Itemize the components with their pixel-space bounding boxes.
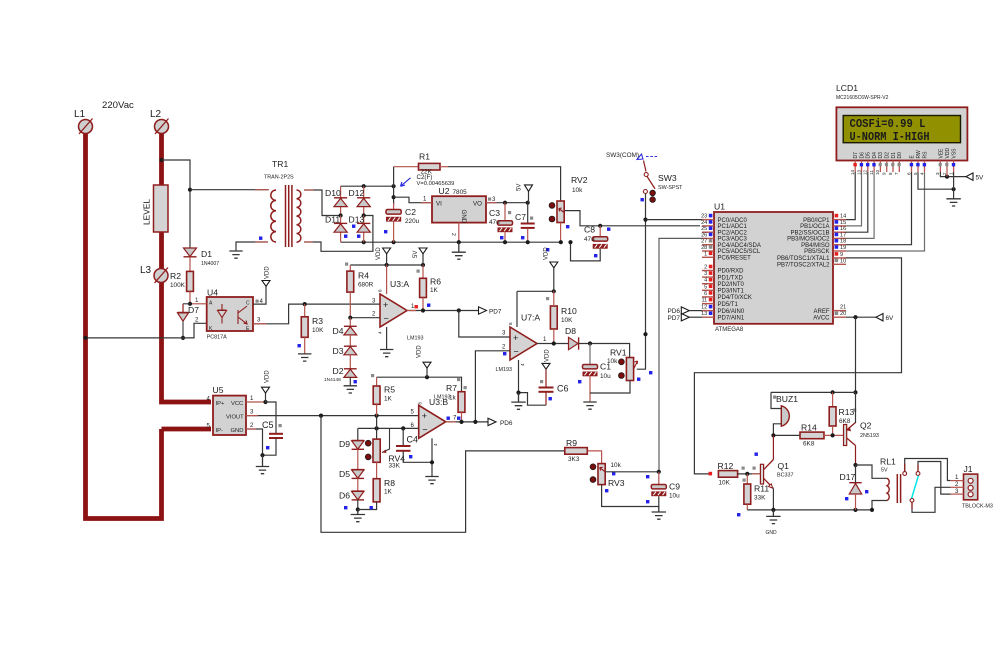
svg-text:PD6: PD6: [500, 420, 513, 427]
svg-text:17: 17: [840, 232, 846, 238]
wire U3:B pin6 node: [358, 427, 419, 429]
svg-text:PC5/ADC5/SCL: PC5/ADC5/SCL: [718, 249, 761, 255]
wire LCD D5 to U1 pin16: [846, 172, 868, 232]
buzzer BUZ1: [771, 392, 798, 435]
wire rail BUZ1/R13/Q2: [771, 391, 856, 393]
svg-text:10k: 10k: [611, 462, 622, 469]
svg-text:BC337: BC337: [777, 473, 793, 479]
capacitor C1 10u: [578, 344, 611, 402]
wire: primary bottom to ground: [236, 242, 268, 251]
svg-text:D11: D11: [325, 215, 340, 225]
IC U5 current sensor: [207, 385, 247, 435]
wire LCD VSS to ground: [953, 172, 955, 199]
op-amp U3:A LM193: [378, 265, 424, 350]
transistor Q1 BC337: [760, 435, 793, 510]
svg-text:18: 18: [840, 239, 846, 245]
wire SW3 node to U1 pin23: [646, 219, 703, 221]
diode D17: [840, 465, 869, 510]
svg-text:D1: D1: [891, 152, 897, 159]
node: rectifier + vertical: [393, 167, 395, 205]
svg-text:1N4007: 1N4007: [201, 261, 219, 267]
svg-text:MC21605C6W-SPR-V2: MC21605C6W-SPR-V2: [836, 95, 889, 101]
svg-text:LEVEL: LEVEL: [142, 199, 152, 225]
power 5V (LCD): [966, 173, 984, 182]
wire: bridge bottom rail (ground rail): [341, 241, 561, 243]
svg-text:+: +: [513, 333, 518, 343]
resistor R8 1K: [358, 462, 395, 509]
ground (U2): [452, 242, 466, 259]
svg-text:13: 13: [856, 169, 861, 175]
ground (U7): [511, 393, 525, 410]
wire LCD D4 to U1 pin17: [846, 172, 874, 238]
wire U5 VCC to VDD: [246, 401, 266, 403]
wire: L2 junction to TR1 primary top and D1: [162, 160, 191, 248]
svg-text:U5: U5: [213, 385, 224, 395]
svg-text:J1: J1: [964, 464, 973, 474]
capacitor C5: [262, 402, 283, 455]
svg-text:SW3(COM): SW3(COM): [606, 152, 639, 159]
wire U1 pin9 to R12 loop: [694, 258, 901, 474]
svg-text:PC1/ADC1: PC1/ADC1: [718, 224, 748, 230]
wire C6 bottom to U7 ground: [519, 393, 547, 406]
svg-text:680R: 680R: [358, 282, 374, 289]
wire: L1 to U4 pin K: [86, 323, 207, 338]
svg-text:8: 8: [378, 289, 383, 292]
capacitor C7: [515, 203, 535, 245]
LCD1 MC21605C6W-SPR-V2: [836, 83, 967, 161]
svg-text:+: +: [383, 300, 388, 310]
svg-text:PD2/INT0: PD2/INT0: [718, 282, 745, 288]
svg-text:SW3: SW3: [658, 173, 677, 183]
svg-text:PB0/ICP1: PB0/ICP1: [803, 218, 830, 224]
resistor R4 680R: [347, 265, 374, 318]
terminal L1: [74, 109, 93, 134]
capacitor C4: [396, 428, 434, 464]
wire U3:A output to PD7: [407, 310, 479, 312]
diode D13: [349, 215, 371, 243]
pot RV3 10k: [590, 462, 625, 492]
power 6V (AVCC): [876, 314, 894, 323]
svg-text:6: 6: [906, 172, 911, 175]
wire LCD RW to VSS: [918, 172, 954, 189]
svg-text:RV3: RV3: [608, 478, 625, 488]
node AC2: [362, 213, 366, 217]
wire D1 to R2: [189, 257, 191, 272]
svg-text:D6: D6: [859, 152, 865, 159]
capacitor C6: [539, 369, 569, 405]
svg-text:R10: R10: [561, 306, 577, 316]
svg-text:VDD: VDD: [265, 266, 271, 279]
svg-text:VDD: VDD: [945, 148, 951, 159]
svg-text:25: 25: [701, 226, 707, 232]
resistor R1 22K: [394, 152, 448, 176]
svg-text:LM193: LM193: [407, 336, 423, 342]
wire: IP- thick lead: [162, 427, 212, 432]
svg-text:D12: D12: [349, 188, 365, 198]
svg-text:D4: D4: [333, 326, 344, 336]
svg-text:5V: 5V: [517, 184, 523, 191]
ground (LCD): [946, 199, 960, 206]
svg-text:VIOUT: VIOUT: [226, 414, 244, 420]
svg-text:8: 8: [888, 172, 893, 175]
capacitor C2 220u: [384, 203, 420, 242]
svg-text:IP-: IP-: [216, 428, 223, 434]
diode D4: [333, 318, 357, 336]
svg-text:220Vac: 220Vac: [102, 100, 134, 111]
svg-text:10u: 10u: [669, 493, 680, 500]
svg-text:D6: D6: [339, 491, 350, 501]
wire D7 anode down to L1 net: [182, 321, 184, 338]
svg-text:23: 23: [701, 214, 707, 220]
svg-text:R9: R9: [566, 438, 577, 448]
wire R5 bottom to RV4: [376, 416, 378, 440]
svg-text:R14: R14: [801, 423, 817, 433]
optocoupler U4 PC817A: [207, 288, 253, 341]
svg-text:RV1: RV1: [610, 348, 627, 358]
svg-text:PD1/TXD: PD1/TXD: [718, 275, 744, 281]
svg-text:C3: C3: [489, 208, 500, 218]
svg-text:12: 12: [701, 305, 707, 311]
svg-text:LCD1: LCD1: [836, 83, 858, 93]
svg-text:U-NORM I-HIGH: U-NORM I-HIGH: [850, 130, 930, 144]
diode D3: [333, 335, 357, 356]
svg-text:33K: 33K: [754, 495, 766, 502]
svg-text:U7:A: U7:A: [521, 313, 540, 323]
ground (D2): [344, 386, 357, 393]
LCD pins: [853, 148, 958, 159]
svg-text:1K: 1K: [430, 287, 439, 294]
svg-text:7: 7: [894, 172, 899, 175]
svg-text:4: 4: [433, 443, 438, 446]
wire U1 pin26 to RV3/C9 node: [659, 238, 702, 471]
svg-text:BUZ1: BUZ1: [776, 394, 798, 404]
power 5V arrow (U2 out): [517, 184, 533, 203]
svg-text:R4: R4: [358, 271, 369, 281]
diode D9: [339, 428, 364, 449]
svg-text:14: 14: [850, 169, 855, 175]
IC U1 ATMEGA8: [714, 202, 833, 334]
svg-text:5V: 5V: [413, 251, 419, 258]
wire R14 right to Q2 base: [824, 434, 844, 436]
svg-text:L1: L1: [74, 109, 86, 120]
ground (D6/R8): [351, 510, 365, 522]
svg-text:10k: 10k: [607, 358, 618, 365]
svg-text:D7: D7: [188, 305, 199, 315]
svg-text:1: 1: [948, 172, 953, 175]
svg-text:3: 3: [704, 271, 707, 277]
svg-text:R2: R2: [170, 271, 181, 281]
svg-text:COSFi=0.99 L: COSFi=0.99 L: [850, 117, 926, 131]
svg-text:R8: R8: [384, 478, 395, 488]
power VDD (R10): [544, 247, 558, 292]
svg-text:IP+: IP+: [216, 401, 225, 407]
wire LCD D6 to U1 pin15: [846, 172, 862, 226]
svg-text:D8: D8: [565, 326, 576, 336]
svg-text:PD6/AIN0: PD6/AIN0: [718, 309, 745, 315]
svg-text:R6: R6: [430, 277, 441, 287]
svg-text:6V: 6V: [886, 315, 895, 322]
svg-text:PC4/ADC4/SDA: PC4/ADC4/SDA: [718, 243, 761, 249]
svg-text:16: 16: [840, 226, 846, 232]
wire R2 to node: [189, 291, 191, 303]
svg-text:C5: C5: [262, 420, 274, 430]
probe C2(F): [401, 174, 455, 187]
node AC1: [339, 213, 343, 217]
svg-text:VDD: VDD: [264, 370, 270, 383]
wire: bridge top rail: [341, 185, 394, 187]
connector J1 TBLOCK-M3: [950, 464, 992, 510]
svg-text:8: 8: [508, 322, 513, 325]
wire R12 to Q1 base: [738, 473, 761, 475]
svg-text:TBLOCK-M3: TBLOCK-M3: [962, 504, 993, 510]
transistor Q2 2N5193: [844, 392, 879, 465]
svg-text:2N5193: 2N5193: [860, 433, 879, 439]
svg-text:PC0/ADC0: PC0/ADC0: [718, 218, 748, 224]
svg-text:VDD: VDD: [544, 247, 550, 260]
svg-text:D2: D2: [333, 366, 344, 376]
resistor R6 1K: [420, 265, 442, 311]
svg-text:5V: 5V: [976, 175, 985, 182]
resistor R2 100K: [170, 271, 193, 291]
svg-text:9: 9: [882, 172, 887, 175]
wire: secondary bottom to bridge AC2: [304, 216, 373, 252]
svg-text:TRAN-2P2S: TRAN-2P2S: [264, 175, 294, 181]
wire: primary top: [190, 189, 268, 191]
svg-text:PC2/ADC2: PC2/ADC2: [718, 230, 748, 236]
svg-text:PB2/SS/OC1B: PB2/SS/OC1B: [790, 230, 829, 236]
svg-text:3: 3: [935, 172, 940, 175]
svg-text:C2: C2: [405, 207, 416, 217]
svg-text:R5: R5: [384, 385, 395, 395]
fuse LEVEL: [142, 185, 169, 232]
U4 pin E wire to R3 node: [253, 304, 380, 324]
svg-text:GND: GND: [766, 530, 778, 536]
wire U7 pin8 to VDD node: [517, 290, 554, 292]
svg-text:26: 26: [701, 232, 707, 238]
wire RV3 bottom to C9 ground: [602, 485, 659, 507]
capacitor C3 47u: [489, 203, 513, 245]
wire D8 to C1/RV1: [579, 344, 630, 358]
svg-text:D17: D17: [840, 472, 856, 482]
svg-text:6: 6: [704, 291, 707, 297]
svg-text:PC6/RESET: PC6/RESET: [718, 256, 752, 262]
svg-text:100K: 100K: [170, 282, 186, 289]
svg-text:VDD: VDD: [545, 349, 551, 362]
svg-text:R3: R3: [312, 316, 323, 326]
pot RV2 10k: [546, 175, 588, 251]
svg-text:ATMEGA8: ATMEGA8: [715, 327, 744, 333]
wire: secondary top to bridge AC1: [304, 190, 341, 216]
svg-text:+: +: [422, 411, 427, 421]
ground (C9): [652, 507, 666, 520]
U1 right pins: [803, 214, 846, 224]
power VDD (C6): [542, 349, 551, 370]
svg-text:C4: C4: [407, 435, 419, 445]
svg-text:D5: D5: [339, 469, 350, 479]
wire LCD D7 to U1 pin14: [846, 172, 855, 220]
pot RV4 33K: [365, 428, 405, 469]
diode D12: [349, 186, 371, 215]
svg-text:5: 5: [913, 172, 918, 175]
ground (U3:B): [425, 477, 438, 484]
svg-text:L2: L2: [150, 109, 162, 120]
svg-text:PB6/TOSC1/XTAL1: PB6/TOSC1/XTAL1: [777, 256, 830, 262]
svg-text:−: −: [422, 425, 427, 435]
transformer TR1 TRAN-2P2S: [264, 159, 301, 247]
svg-text:10K: 10K: [312, 327, 324, 334]
svg-text:D0: D0: [897, 152, 903, 159]
svg-text:4: 4: [378, 331, 383, 334]
svg-text:2: 2: [450, 233, 456, 236]
svg-text:19: 19: [840, 245, 846, 251]
diode D5: [339, 449, 364, 479]
svg-text:GND: GND: [231, 428, 244, 434]
svg-text:C7: C7: [515, 212, 526, 222]
diode D7: [178, 304, 200, 321]
svg-text:PB4/MISO: PB4/MISO: [801, 243, 830, 249]
svg-text:10: 10: [840, 258, 846, 264]
relay RL1 5V: [856, 457, 901, 513]
resistor R14 6K8: [800, 423, 824, 448]
op-amp U7:A LM193: [496, 291, 541, 392]
wire U5 GND: [246, 429, 263, 455]
power VDD (U3:A): [376, 247, 391, 265]
wire C8 bottom loop to ground rail: [571, 242, 601, 261]
terminal PD7 (out): [479, 307, 502, 316]
svg-text:47u: 47u: [584, 236, 595, 243]
svg-text:VSS: VSS: [952, 148, 958, 159]
wire SW3 down to RV1 wiper: [637, 194, 646, 370]
svg-text:RV2: RV2: [571, 175, 588, 185]
relay contacts: [903, 459, 951, 513]
svg-text:28: 28: [701, 245, 707, 251]
svg-text:220u: 220u: [405, 218, 420, 225]
terminal PD7 (into U1): [668, 314, 703, 322]
diode D2 1N4148: [324, 355, 357, 383]
switch SW3 SW-SPST: [606, 152, 683, 202]
svg-text:AREF: AREF: [813, 309, 829, 315]
wire U2 pin2 gnd: [458, 223, 460, 243]
svg-text:U3:B: U3:B: [429, 397, 448, 407]
diode D11: [325, 215, 347, 243]
svg-text:−: −: [514, 347, 519, 357]
svg-text:C8: C8: [584, 225, 595, 235]
svg-text:PD5/T1: PD5/T1: [718, 302, 739, 308]
wire: L1 thick bus: [86, 132, 162, 519]
ground (U5/C5): [256, 455, 269, 474]
svg-text:U3:A: U3:A: [390, 279, 409, 289]
svg-text:VO: VO: [473, 201, 482, 208]
resistor R13 6K8: [829, 392, 856, 435]
svg-text:14: 14: [840, 214, 846, 220]
capacitor C8 47u: [584, 225, 610, 258]
svg-text:10K: 10K: [719, 480, 731, 487]
svg-text:PC3/ADC3: PC3/ADC3: [718, 237, 748, 243]
wire node to U3:A pin2: [350, 317, 380, 319]
power rail above U3:A: [350, 264, 423, 266]
resistor R3 10K: [298, 304, 325, 354]
resistor R5 1K: [373, 377, 395, 415]
svg-text:1K: 1K: [384, 489, 393, 496]
svg-text:10: 10: [875, 169, 880, 175]
svg-text:RS: RS: [923, 151, 929, 159]
U1 left pins: [701, 214, 747, 224]
wire LCD E to U1 pin18: [846, 172, 912, 245]
svg-text:10K: 10K: [561, 317, 573, 324]
svg-text:6K8: 6K8: [803, 441, 815, 448]
svg-text:Q2: Q2: [860, 421, 872, 431]
svg-text:PD0/RXD: PD0/RXD: [718, 269, 745, 275]
wire: L2 thick bus: [162, 132, 212, 402]
svg-text:11: 11: [701, 298, 707, 304]
svg-text:VDD: VDD: [417, 345, 423, 358]
svg-text:D10: D10: [325, 188, 341, 198]
terminal PD6 (out): [488, 418, 513, 427]
svg-text:4: 4: [919, 172, 924, 175]
svg-text:TR1: TR1: [272, 159, 288, 169]
diode D1 1N4007: [184, 248, 220, 267]
svg-text:3K3: 3K3: [568, 456, 580, 463]
svg-text:20: 20: [840, 311, 846, 317]
svg-text:2: 2: [942, 172, 947, 175]
wire R9 to RV3: [587, 451, 601, 464]
ground (R3): [298, 354, 311, 361]
svg-text:C9: C9: [669, 482, 680, 492]
terminal L3: [140, 265, 168, 283]
svg-text:R12: R12: [718, 461, 734, 471]
svg-text:11: 11: [869, 170, 874, 175]
svg-text:GND: GND: [460, 210, 467, 224]
wire RV2 wiper to pin24 net: [565, 211, 701, 226]
diode D6: [339, 478, 364, 500]
capacitor C9 10u: [646, 472, 680, 504]
svg-text:U2: U2: [439, 186, 450, 196]
svg-text:10k: 10k: [572, 187, 583, 194]
svg-text:21: 21: [840, 305, 846, 311]
ground GND: [766, 510, 781, 536]
svg-text:5V: 5V: [881, 468, 888, 474]
resistor R7 1k: [434, 383, 465, 422]
svg-text:24: 24: [701, 220, 707, 226]
svg-text:PC817A: PC817A: [207, 335, 227, 341]
pot RV1 10k: [607, 348, 652, 381]
power VDD (U3:B rail): [417, 345, 432, 378]
svg-text:D3: D3: [878, 152, 884, 159]
svg-text:SW-SPST: SW-SPST: [658, 185, 683, 191]
wire to U7 pin3: [459, 311, 510, 338]
svg-text:VDD: VDD: [376, 247, 382, 260]
node: L2 to D1/TR1 junction: [159, 158, 163, 162]
wire R14 left to Q1 collector node: [773, 434, 800, 436]
wire R1 right to RV2 top: [448, 167, 561, 201]
resistor R11 33K: [744, 453, 769, 510]
svg-text:D5: D5: [866, 152, 872, 159]
svg-text:LM193: LM193: [496, 367, 512, 373]
wire D7 cathode to node: [183, 303, 190, 305]
terminal PD6 (into U1): [668, 307, 703, 315]
svg-text:PB3/MOSI/OC2: PB3/MOSI/OC2: [787, 237, 830, 243]
svg-text:27: 27: [701, 239, 707, 245]
svg-text:D4: D4: [872, 152, 878, 159]
svg-text:1K: 1K: [384, 396, 393, 403]
U4 pin C wire to VDD: [253, 286, 266, 304]
svg-text:VCC: VCC: [231, 401, 243, 407]
svg-text:D9: D9: [339, 439, 350, 449]
resistor R12 10K: [709, 461, 738, 487]
diode D8: [565, 326, 579, 350]
svg-text:R13: R13: [839, 407, 855, 417]
svg-text:PD7: PD7: [668, 315, 681, 322]
